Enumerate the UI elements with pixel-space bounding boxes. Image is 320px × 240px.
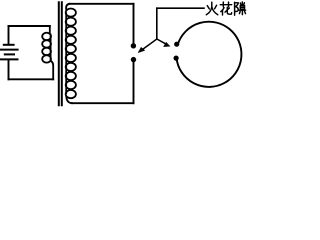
隙 — [234, 2, 236, 15]
wire bottom secondary — [72, 102, 134, 104]
spark gap ball bottom — [131, 57, 136, 62]
primary coil L1 — [42, 26, 53, 79]
leader arrow left — [138, 39, 157, 53]
iron core — [59, 2, 62, 105]
wire right bottom rod — [133, 62, 135, 103]
receiver ring — [177, 22, 242, 87]
wire bottom primary — [9, 78, 54, 80]
receiver gap ball bottom — [174, 56, 179, 61]
wire top secondary — [70, 3, 134, 5]
火 — [207, 6, 209, 9]
leader arrow right — [157, 39, 170, 47]
spark gap ball top — [131, 43, 136, 48]
secondary coil L2 — [66, 4, 76, 103]
receiver gap ball top — [174, 42, 179, 47]
wire top primary — [9, 25, 50, 27]
battery G1 — [1, 45, 18, 60]
label 火花隙 (spark gap) — [206, 2, 245, 15]
wire battery bottom stub — [8, 60, 10, 79]
花 — [220, 4, 231, 6]
wire battery top stub — [8, 26, 10, 44]
leader line vertical — [156, 8, 158, 39]
wire right top rod — [133, 4, 135, 43]
leader line horizontal — [157, 7, 204, 9]
